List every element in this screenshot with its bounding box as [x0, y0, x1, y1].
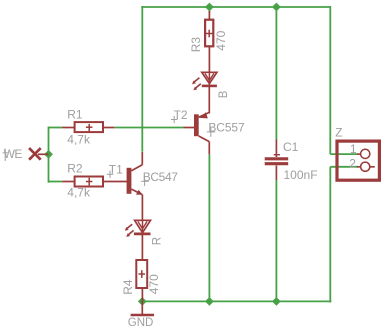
- wire T2 collector to bottom rail: [208, 154, 210, 301]
- wire R1 to T2 base: [114, 127, 183, 129]
- svg-text:B: B: [218, 90, 230, 98]
- svg-text:R4: R4: [121, 279, 135, 295]
- node WE open-end cross: [29, 148, 48, 160]
- wire right column top to pin 1: [329, 6, 331, 154]
- wire to connector pin 2: [330, 166, 357, 168]
- label T2 value BC557: [207, 120, 245, 137]
- wire WE to R1: [49, 127, 63, 129]
- resistor R3: [205, 11, 213, 73]
- LED B: [192, 72, 217, 90]
- svg-text:T2: T2: [174, 108, 188, 122]
- svg-text:GND: GND: [128, 317, 154, 329]
- svg-text:100nF: 100nF: [284, 168, 318, 182]
- transistor T1 BC547: [127, 152, 143, 220]
- svg-text:R3: R3: [189, 37, 203, 53]
- ground GND: [131, 301, 154, 315]
- svg-text:R2: R2: [67, 162, 83, 176]
- svg-text:WE: WE: [4, 147, 23, 161]
- resistor R2: [62, 177, 127, 187]
- label T1 name: [107, 163, 123, 179]
- node WE label: [3, 147, 23, 161]
- wire top rail V+: [141, 6, 330, 8]
- wire left column WE net: [48, 127, 50, 183]
- svg-text:BC547: BC547: [143, 170, 178, 184]
- LED R: [125, 220, 151, 237]
- wire C1 top: [275, 7, 277, 140]
- wire to connector pin 1: [330, 153, 357, 155]
- svg-text:Z: Z: [335, 125, 342, 139]
- svg-text:470: 470: [214, 30, 228, 50]
- junction WE node: [44, 150, 53, 159]
- wire bottom rail GND net: [142, 300, 331, 302]
- svg-text:2: 2: [349, 157, 356, 171]
- junction C1 bottom: [272, 297, 281, 306]
- junction T2 collector bottom: [205, 297, 214, 306]
- svg-text:470: 470: [147, 274, 161, 294]
- connector Z: [337, 141, 379, 180]
- wire right column pin 2 to bottom rail: [329, 167, 331, 303]
- label T2 name: [171, 108, 188, 123]
- junction GND R4: [138, 297, 147, 306]
- svg-text:BC557: BC557: [208, 120, 245, 134]
- svg-text:T1: T1: [109, 163, 123, 177]
- resistor R1: [62, 122, 114, 132]
- junction R3 top: [205, 3, 214, 12]
- svg-text:R: R: [151, 237, 163, 245]
- wire T1 collector column: [141, 6, 143, 152]
- wire WE to R2: [49, 181, 63, 183]
- label T1 value BC547: [141, 170, 178, 186]
- svg-text:1: 1: [350, 142, 357, 156]
- capacitor C1: [265, 140, 289, 181]
- svg-text:C1: C1: [283, 140, 299, 154]
- resistor R4: [136, 235, 147, 302]
- transistor T2 BC557: [184, 86, 210, 155]
- junction C1 top: [272, 3, 281, 12]
- wire C1 bottom: [275, 180, 277, 301]
- svg-text:4,7k: 4,7k: [67, 186, 91, 200]
- svg-text:4,7k: 4,7k: [67, 132, 91, 146]
- wire R3 top stub: [208, 7, 210, 13]
- svg-text:R1: R1: [67, 108, 83, 122]
